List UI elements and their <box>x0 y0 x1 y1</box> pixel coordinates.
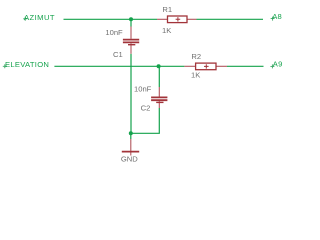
node junction on ELEVATION line <box>157 64 161 68</box>
svg-text:AZIMUT: AZIMUT <box>24 13 55 22</box>
wire C2 bottom to bottom node <box>131 108 160 133</box>
ground <box>122 139 139 156</box>
resistor R1 <box>157 16 197 23</box>
svg-text:ELEVATION: ELEVATION <box>5 60 49 69</box>
svg-text:R1: R1 <box>162 5 172 14</box>
svg-text:GND: GND <box>121 155 138 164</box>
svg-text:C1: C1 <box>113 50 123 59</box>
node A9 terminal marker <box>270 64 274 68</box>
wire bottom node to ground <box>130 133 132 139</box>
wire ELEVATION net horizontal <box>54 65 184 67</box>
svg-text:10nF: 10nF <box>134 85 152 94</box>
capacitor C1 <box>123 27 139 54</box>
wire C2 top <box>158 66 160 87</box>
wire AZIMUT net horizontal <box>64 18 158 20</box>
node A8 terminal marker <box>271 17 275 21</box>
capacitor C2 <box>151 87 167 108</box>
svg-text:1K: 1K <box>191 71 200 80</box>
svg-text:10nF: 10nF <box>105 28 123 37</box>
svg-text:1K: 1K <box>162 26 171 35</box>
resistor R2 <box>184 63 227 70</box>
svg-text:A9: A9 <box>273 60 283 69</box>
wire C1 bottom to bottom node <box>130 54 132 134</box>
wire R2 output to A9 <box>227 65 264 67</box>
svg-text:R2: R2 <box>191 52 201 61</box>
node junction on AZIMUT line <box>129 17 133 21</box>
node AZIMUT terminal marker <box>23 17 27 21</box>
node ELEVATION terminal marker <box>3 64 7 68</box>
node junction at ground net corner <box>129 131 133 135</box>
wire R1 output to A8 <box>197 18 264 20</box>
svg-text:A8: A8 <box>272 12 282 21</box>
svg-text:C2: C2 <box>141 104 151 113</box>
wire C1 top <box>130 19 132 26</box>
